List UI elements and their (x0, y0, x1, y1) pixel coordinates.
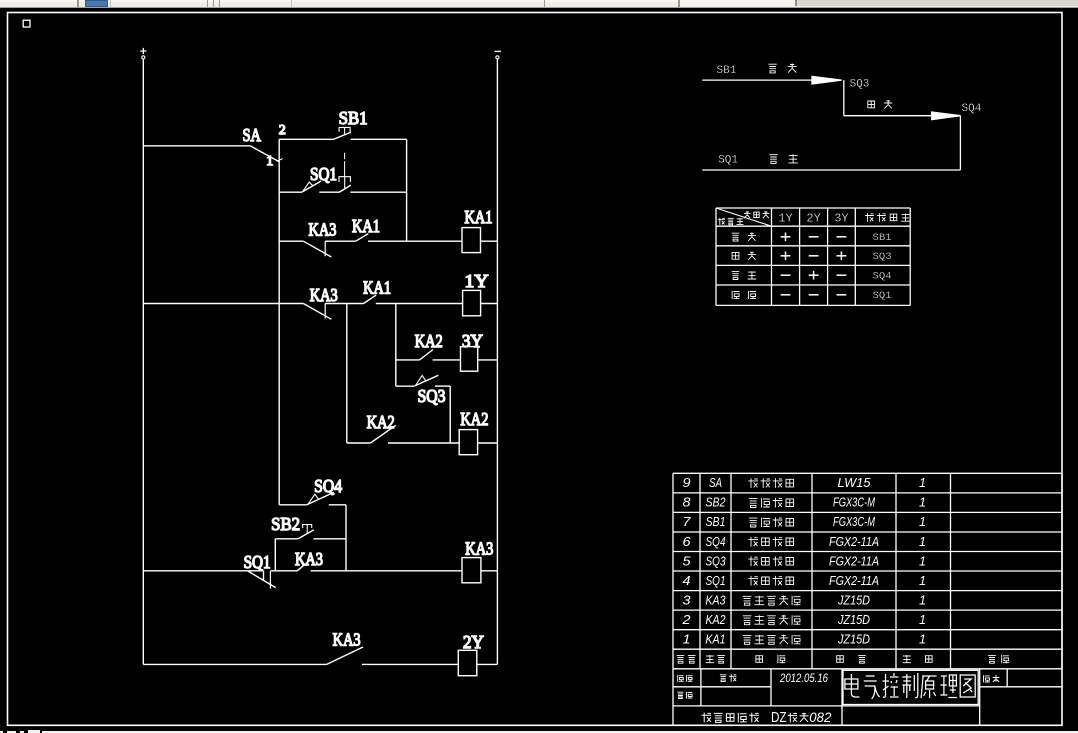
svg-text:8: 8 (683, 496, 691, 510)
wire: flow step 1 (fast advance) (702, 79, 813, 81)
title box frame (843, 670, 978, 704)
svg-text:082: 082 (809, 709, 831, 725)
svg-text:1: 1 (919, 554, 926, 568)
svg-text:SQ1: SQ1 (244, 552, 271, 572)
svg-text:SB1: SB1 (717, 65, 737, 77)
svg-text:6: 6 (683, 535, 691, 549)
wire: rung KA2-coil left segment (347, 442, 371, 444)
svg-text:SA: SA (709, 476, 722, 490)
svg-text:SQ3: SQ3 (418, 386, 446, 406)
coil 2Y (solenoid valve) (458, 650, 477, 675)
svg-text:SA: SA (243, 125, 262, 145)
wire: between KA3 and KA1 on rung 1Y (325, 303, 363, 305)
svg-text:KA1: KA1 (363, 277, 391, 297)
svg-text:SQ4: SQ4 (706, 535, 726, 549)
wire: rung 3 to coil KA1 (368, 240, 462, 242)
svg-text:KA2: KA2 (415, 331, 443, 351)
svg-text:FGX2-11A: FGX2-11A (829, 535, 879, 549)
svg-text:KA1: KA1 (465, 207, 493, 227)
svg-text:1: 1 (919, 515, 926, 529)
coil KA1 (462, 228, 481, 253)
svg-text:JZ15D: JZ15D (837, 633, 870, 647)
wire: coil 1Y to right bus (481, 303, 498, 305)
wire: SQ3 branch down to KA2 rung (449, 386, 451, 443)
svg-text:KA1: KA1 (706, 633, 726, 647)
svg-text:1: 1 (919, 476, 926, 490)
row label SQ1 (Chinese mode name) (732, 291, 756, 299)
BOM header row labels (Chinese) (677, 655, 696, 663)
svg-text:1Y: 1Y (465, 271, 489, 291)
wire: KA3 rung from left bus (143, 570, 248, 572)
limit switch SQ1 (NO contact with wedge actuator) (302, 181, 321, 192)
wire: rung SB1 left segment (279, 138, 333, 140)
wire: rung SQ3 left segment (396, 385, 415, 387)
wire: coil KA3 to right bus (481, 570, 498, 572)
state marks row 1 (781, 233, 847, 242)
svg-text:KA3: KA3 (706, 593, 726, 607)
svg-text:FGX3C-M: FGX3C-M (833, 496, 875, 510)
wire: rung SQ1 right segment (350, 191, 406, 193)
svg-text:SQ1: SQ1 (310, 164, 337, 184)
wire: rung 1Y from left bus (143, 303, 303, 305)
svg-text:KA2: KA2 (367, 412, 395, 432)
label command column header (Chinese) (865, 213, 910, 222)
svg-text:1: 1 (683, 633, 691, 647)
svg-text:7: 7 (683, 515, 692, 529)
contact KA3 (NO) on rung 2Y (327, 647, 363, 664)
wire: vertical SQ4 to KA3 rung (345, 505, 347, 571)
svg-text:2: 2 (279, 123, 286, 138)
wire: branch vertical to 3Y/SQ3 rungs (395, 304, 397, 387)
coil KA3 (462, 558, 481, 583)
coil 3Y (solenoid valve) (461, 347, 478, 372)
label school + class (702, 713, 759, 723)
svg-text:SQ3: SQ3 (850, 79, 870, 91)
wire: rung 3 left segment (279, 240, 303, 242)
row label SQ3 (Chinese mode name) (732, 252, 756, 260)
state marks row 4 (781, 294, 847, 296)
contact KA2 (NO) on coil rung (370, 425, 395, 443)
wire: vertical feeder node from SA (278, 139, 280, 505)
wire: between KA3 and KA1 contacts (325, 240, 356, 242)
wire: branch vertical to KA2 rung (346, 304, 348, 444)
label drawn-by (Chinese) (678, 675, 693, 682)
wire: rung 3Y to coil (433, 359, 461, 361)
table: title block grid (673, 669, 1062, 726)
table: bill of materials grid (673, 473, 1062, 669)
svg-text:KA3: KA3 (310, 285, 338, 305)
label work-feed (Chinese) (868, 100, 892, 108)
row label SQ4 (Chinese mode name) (732, 271, 757, 279)
pushbutton SB2 (NO contact with plunger) (298, 525, 314, 539)
svg-text:1: 1 (919, 574, 926, 588)
contact KA3 (NC) on rung 3 (303, 241, 331, 257)
wire: step down from SQ4 (959, 116, 961, 170)
svg-text:SQ3: SQ3 (706, 554, 726, 568)
svg-text:SQ1: SQ1 (706, 574, 726, 588)
label main title: electrical control schematic (Chinese) (845, 673, 975, 699)
table: solenoid state chart grid (716, 208, 910, 305)
wire: right supply bus (496, 59, 498, 664)
svg-text:9: 9 (683, 476, 691, 490)
wire: coil 2Y to right bus (477, 663, 498, 665)
svg-text:SQ1: SQ1 (873, 290, 892, 302)
wire: coil KA1 to right bus (481, 240, 498, 242)
state marks row 2 (781, 252, 847, 261)
wire: rung 3Y left segment (396, 359, 420, 361)
svg-text:KA3: KA3 (295, 549, 323, 569)
svg-text:FGX2-11A: FGX2-11A (829, 554, 879, 568)
svg-text:SB1: SB1 (339, 108, 368, 128)
contact KA1 (NO) on rung 1Y (364, 295, 377, 303)
svg-text:KA3: KA3 (309, 219, 337, 239)
svg-text:1: 1 (919, 593, 926, 607)
contact KA3 (NC) on rung 1Y (303, 304, 331, 320)
coil KA2 (459, 430, 477, 455)
arrow head step 2 (932, 112, 961, 120)
svg-text:SB2: SB2 (271, 514, 300, 534)
contact KA2 (NO) on rung 3Y (420, 350, 434, 360)
wire: SQ4 right segment (329, 504, 346, 506)
svg-text:3Y: 3Y (462, 331, 483, 351)
arrow head step 1 (812, 76, 842, 84)
svg-text:JZ15D: JZ15D (837, 593, 870, 607)
svg-text:DZ: DZ (771, 710, 787, 726)
node + : positive supply terminal (140, 48, 146, 59)
wire: rung SB1 right segment (351, 138, 407, 140)
wire: vertical SB2 to KA3 rung (274, 539, 276, 571)
wire: flow step 2 (work feed) (844, 115, 933, 117)
limit switch SQ1 (NC contact with wedge) on KA3 rung (248, 571, 276, 589)
wire: coil 3Y to right bus (478, 359, 498, 361)
svg-text:1Y: 1Y (778, 212, 792, 226)
contact KA3 (NO) on coil rung (297, 559, 311, 571)
wire: rung SB2 right segment (314, 538, 347, 540)
svg-text:JZ15D: JZ15D (837, 613, 870, 627)
svg-text:SQ4: SQ4 (314, 476, 342, 496)
wire: right branch vertical (SB1/SQ1 join) (406, 139, 408, 241)
svg-text:2: 2 (681, 613, 690, 627)
wire: rung SQ1 left segment (279, 191, 302, 193)
svg-text:5: 5 (683, 554, 691, 568)
state marks row 3 (781, 271, 847, 280)
wire: step down from SQ3 (843, 80, 845, 116)
wire: segment between SQ1 and SB1 lower contact (319, 191, 339, 193)
svg-text:LW15: LW15 (838, 476, 871, 490)
svg-text:4: 4 (683, 574, 691, 588)
switch SA (selector blade) (250, 146, 283, 162)
svg-text:SQ4: SQ4 (873, 271, 892, 283)
svg-text:1: 1 (919, 535, 926, 549)
svg-text:1: 1 (266, 154, 273, 169)
svg-text:KA2: KA2 (706, 613, 726, 627)
svg-text:1: 1 (919, 613, 926, 627)
label fast-retract (Chinese) (769, 154, 798, 163)
svg-text:2Y: 2Y (463, 632, 484, 652)
svg-text:1: 1 (919, 633, 926, 647)
svg-text:1: 1 (919, 496, 926, 510)
svg-text:3: 3 (683, 593, 691, 607)
svg-text:KA1: KA1 (352, 216, 380, 236)
wire: rung SB2 left segment (275, 538, 298, 540)
wire: flow return line (fast retract) (702, 169, 960, 171)
label drafter name (Chinese) (720, 674, 737, 681)
wire: between SQ1 and KA3 contact (271, 570, 298, 572)
node - : negative supply terminal (495, 51, 501, 59)
pushbutton SB1 (NC contact blade + plunger) (333, 127, 351, 176)
svg-text:FGX3C-M: FGX3C-M (833, 515, 875, 529)
label solenoid (header diagonal top) (744, 211, 769, 218)
wire: rung 2Y from left bus (143, 663, 326, 665)
label scale (Chinese) (984, 675, 1000, 682)
wire: rung to coil KA2 (388, 442, 459, 444)
svg-text:SB2: SB2 (706, 496, 726, 510)
label checked (Chinese) (677, 692, 692, 699)
svg-text:2012.05.16: 2012.05.16 (779, 673, 828, 685)
pushbutton SB1 lower contact (NO, mechanically linked) (339, 177, 351, 193)
wire: rung to coil KA3 (311, 570, 462, 572)
wire: rung SQ4 left segment (279, 504, 307, 506)
wire: coil KA2 to right bus (478, 442, 498, 444)
svg-text:SB1: SB1 (873, 232, 892, 244)
svg-text:3Y: 3Y (834, 212, 848, 226)
svg-text:SQ3: SQ3 (873, 251, 892, 263)
row label SB1 (Chinese mode name) (732, 233, 756, 242)
svg-text:KA2: KA2 (460, 409, 488, 429)
svg-text:KA3: KA3 (465, 539, 493, 559)
svg-text:2Y: 2Y (806, 212, 820, 226)
limit switch SQ3 (NO contact with wedge actuator) (414, 375, 438, 386)
label fast-advance (Chinese) (768, 64, 796, 73)
contact KA1 (NO) on rung 3 (356, 234, 369, 242)
wire: rung 1Y to coil (376, 303, 463, 305)
svg-text:SB1: SB1 (706, 515, 726, 529)
wire: SQ3 fixed contact segment (435, 385, 450, 387)
wire: rung 2Y to coil (362, 663, 458, 665)
coil 1Y (solenoid valve) (463, 290, 481, 315)
svg-text:KA3: KA3 (333, 630, 361, 650)
svg-text:SQ4: SQ4 (962, 103, 982, 115)
svg-text:SQ1: SQ1 (718, 155, 738, 167)
svg-text:FGX2-11A: FGX2-11A (829, 574, 879, 588)
wire: rung 1 from left bus to switch SA (143, 145, 250, 147)
label cylinder (header diagonal bottom) (718, 218, 744, 225)
limit switch SQ4 (NO contact with wedge actuator) (307, 492, 334, 504)
wire: left supply bus (142, 59, 144, 664)
